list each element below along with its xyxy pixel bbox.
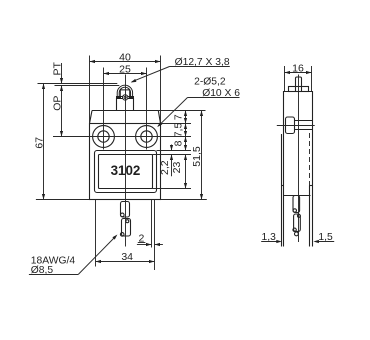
dimension OP line — [61, 86, 63, 137]
plunger cross hole circle — [123, 95, 128, 100]
dimension 40 extension right — [160, 56, 162, 124]
svg-text:16: 16 — [292, 62, 304, 74]
dimension 16 arrow left — [285, 71, 291, 74]
svg-text:34: 34 — [121, 251, 133, 263]
svg-text:40: 40 — [119, 52, 131, 64]
dimension PT arrow down — [60, 78, 63, 84]
switch body rect — [90, 124, 161, 200]
dimension 51,5 arrow down — [200, 194, 203, 200]
side cable end circle — [295, 232, 299, 236]
extension 34 right — [154, 200, 156, 270]
side cable segment 1 — [293, 196, 300, 213]
side cable seg1 circle — [293, 209, 296, 212]
cable segment 2 — [122, 219, 131, 237]
side boss bottom line — [295, 129, 313, 131]
dimension 40 extension left — [89, 56, 91, 124]
cable seg1 twist circle — [121, 213, 125, 217]
label counterbore underline — [188, 97, 240, 99]
extension 2 inner — [151, 200, 153, 248]
dimension 67 line — [43, 84, 45, 200]
dimension 23 arrow down — [184, 183, 187, 189]
svg-text:OP: OP — [52, 96, 64, 111]
svg-text:23: 23 — [171, 162, 183, 174]
dimension 1,5 arrow — [313, 240, 319, 243]
plate inner top extension right — [153, 154, 192, 156]
side left shell tick — [282, 185, 284, 187]
plunger pin rect — [120, 90, 129, 97]
dimension PT line upper — [61, 63, 63, 84]
mounting hole left outer — [93, 126, 115, 148]
plunger dome outer arc — [117, 85, 132, 96]
plunger flange dark bar left — [117, 96, 122, 99]
dimension 34 arrow right — [149, 260, 155, 263]
svg-text:2-Ø5,2: 2-Ø5,2 — [194, 77, 226, 88]
dimension 67 arrow down — [42, 194, 45, 200]
dimension 1,5 underline — [317, 241, 334, 243]
cable seg2 top twist circle — [126, 220, 129, 223]
switch head trapezoid — [90, 111, 161, 124]
dimension 2 arrow left-pointing — [155, 243, 161, 246]
svg-text:67: 67 — [33, 137, 45, 149]
cable seg2 bottom twist circle — [120, 233, 124, 237]
label plunger leader arrow — [131, 79, 137, 83]
dimension 1,3 underline — [261, 241, 278, 243]
dimension 2,2 lower line — [171, 155, 173, 177]
side extension right — [311, 66, 313, 92]
dimension 2 left shaft — [137, 244, 152, 246]
dimension 51,5 line — [201, 111, 203, 200]
svg-text:8: 8 — [172, 140, 184, 146]
side body outline — [284, 92, 313, 247]
side boss rounded rect — [286, 117, 295, 134]
dimension 2,2 upper line — [171, 145, 173, 151]
side right shell tick — [310, 185, 313, 187]
svg-text:25: 25 — [119, 64, 131, 76]
plate inner bottom extension right — [153, 188, 192, 190]
label plunger leader — [132, 67, 170, 82]
chain 7 arrows — [184, 111, 187, 117]
body bottom extension left — [36, 199, 90, 201]
operating position line — [55, 85, 120, 87]
side extension left — [284, 66, 286, 92]
plunger cross hole inner — [124, 96, 126, 98]
dimension 1,3 arrow — [276, 240, 282, 243]
side boss top line — [295, 120, 313, 122]
extension 34 left — [95, 200, 97, 267]
dimension OP arrow up — [60, 86, 63, 92]
dimension 2 underline — [138, 242, 146, 244]
dimension OP arrow down — [60, 131, 63, 137]
plunger boss — [117, 99, 134, 111]
label plate inner — [99, 155, 153, 189]
side right inner solid line — [309, 186, 311, 247]
chain line 7 / 7,5 / 8 — [185, 111, 187, 151]
svg-text:2,2: 2,2 — [159, 160, 171, 175]
dimension 34 arrow left — [96, 260, 102, 263]
dimension 67 arrow up — [42, 84, 45, 90]
mounting hole left inner — [98, 131, 109, 142]
dimension 40 arrow right — [155, 60, 161, 63]
svg-text:51,5: 51,5 — [191, 146, 203, 167]
side cable seg2 bottom circle — [293, 228, 296, 231]
side left outer shell line — [281, 134, 283, 247]
head top extension right — [158, 110, 205, 112]
dimension 16 line — [285, 72, 312, 74]
label plunger underline — [170, 66, 230, 68]
dimension 2,2 arrow up — [170, 155, 173, 161]
dimension 25 arrow left — [104, 72, 110, 75]
body bottom extension right — [161, 199, 207, 201]
plunger flange dark bar right — [129, 96, 134, 99]
dimension 40 line — [90, 61, 161, 63]
dimension 16 arrow right — [306, 71, 312, 74]
mounting hole right inner — [141, 131, 152, 142]
chain 8 arrows — [184, 137, 187, 143]
side cable segment 2 — [294, 214, 301, 231]
side body bottom line — [284, 195, 311, 197]
model number 3102 — [108, 163, 143, 177]
dimension 2 right shaft — [155, 244, 163, 246]
dimension 25 extension left / circle axis — [103, 68, 105, 150]
dimension 2 arrow right-pointing — [146, 243, 152, 246]
dimension 40 arrow left — [90, 60, 96, 63]
dimension 25 line — [104, 73, 147, 75]
label cable leader arrow — [112, 235, 117, 240]
chain 7,5 arrows — [184, 124, 187, 130]
side cable seg2 top circle — [298, 215, 301, 218]
label cable underline — [29, 274, 78, 276]
label cable leader — [78, 238, 114, 275]
circle axis horizontal line — [53, 136, 191, 138]
front center line — [125, 75, 127, 247]
label counterbore leader arrow — [157, 122, 162, 127]
svg-text:7: 7 — [172, 114, 184, 120]
plate top extension right — [157, 150, 192, 152]
plunger dome inner arc — [119, 87, 130, 96]
dimension 25 extension right / circle axis — [146, 68, 148, 150]
mounting hole right outer — [136, 126, 158, 148]
free position line — [38, 83, 118, 85]
side plunger flange — [289, 87, 309, 92]
side plunger pin — [296, 77, 302, 92]
dimension 23 line — [185, 155, 187, 189]
side center line — [298, 75, 300, 243]
dimension 51,5 arrow up — [200, 111, 203, 117]
side right inner dashed line — [309, 133, 311, 186]
plunger flange — [117, 97, 134, 99]
svg-text:7,5: 7,5 — [172, 123, 184, 138]
side hole axis line — [277, 125, 315, 127]
dimension 2,2 arrow down — [170, 145, 173, 151]
dimension 25 arrow right — [141, 72, 147, 75]
label plate outer — [95, 151, 157, 193]
label counterbore leader — [158, 98, 188, 127]
head bottom extension right — [161, 123, 192, 125]
cable segment 1 — [121, 202, 130, 218]
svg-text:PT: PT — [52, 62, 64, 76]
dimension 34 line — [96, 261, 155, 263]
dimension 23 arrow up — [184, 155, 187, 161]
